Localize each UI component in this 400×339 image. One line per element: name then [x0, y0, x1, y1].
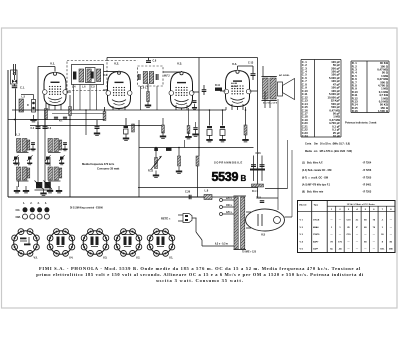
- wire junction dots: [14, 109, 247, 148]
- capacitor C12: [202, 89, 207, 92]
- tube socket V.4.: [47, 229, 75, 257]
- wire: [264, 91, 266, 108]
- svg-text:R.1 1: R.1 1: [252, 190, 258, 193]
- wire: [33, 95, 35, 100]
- tube socket V.5.: [12, 229, 40, 257]
- wire long mid: [12, 109, 226, 111]
- wire: [250, 90, 258, 92]
- wire: [37, 110, 39, 182]
- wire: [118, 72, 120, 74]
- svg-text:OC.: OC.: [16, 208, 21, 212]
- svg-text:M.F.2: M.F.2: [164, 76, 170, 78]
- capacitor C5b: [31, 142, 35, 145]
- wire: [37, 122, 39, 126]
- wire: [195, 122, 197, 127]
- wire V3 cathode leads: [176, 105, 187, 110]
- wire: [106, 58, 108, 61]
- ground: [153, 171, 159, 178]
- IF1 inner box2: [86, 68, 96, 83]
- wire: [49, 157, 51, 166]
- svg-text:V.4.: V.4.: [69, 257, 74, 260]
- tuning gang C14 C15: [35, 181, 53, 191]
- capacitor C10: [193, 100, 197, 103]
- svg-text:4.: 4.: [45, 202, 47, 205]
- wire: [14, 84, 16, 86]
- capacitor C2: [36, 126, 41, 129]
- wire: [147, 84, 149, 92]
- wire: [222, 110, 224, 126]
- wire: [18, 181, 20, 187]
- wire: [246, 227, 251, 229]
- svg-text:V.2.: V.2.: [114, 62, 119, 66]
- svg-text:3.: 3.: [38, 202, 40, 205]
- potentiometer R12: [151, 156, 162, 170]
- wire AVC bus: [107, 57, 258, 59]
- wire: [15, 89, 17, 137]
- svg-text:(A-5) MF 470 kHz tipo F.1: (A-5) MF 470 kHz tipo F.1: [302, 184, 331, 187]
- capacitor C9: [138, 74, 141, 80]
- wire: [138, 120, 140, 197]
- wire: [148, 58, 150, 61]
- capacitor C8: [146, 60, 151, 63]
- capacitor C5c: [63, 142, 67, 145]
- coil L7b: [149, 72, 153, 84]
- tube socket V.2.: [114, 229, 142, 257]
- svg-text:- R 7204: - R 7204: [362, 162, 372, 165]
- ground: [176, 167, 182, 174]
- ground: [59, 159, 64, 165]
- socket V3 pins: [89, 235, 100, 247]
- svg-text:B: B: [241, 174, 247, 183]
- electrolytic C18: [220, 126, 225, 136]
- wire: [188, 108, 190, 126]
- output transformer T2: [262, 77, 277, 101]
- capacitor C10: [156, 74, 159, 80]
- svg-text:R.16: R.16: [352, 109, 358, 113]
- svg-text:- R 7203: - R 7203: [362, 191, 372, 194]
- svg-text:75 W/E + 125: 75 W/E + 125: [242, 252, 257, 254]
- svg-text:C.5: C.5: [91, 86, 95, 89]
- capacitor C13: [251, 73, 256, 76]
- ground: [219, 135, 225, 142]
- shield dashed link: [107, 60, 138, 62]
- ground: [47, 186, 53, 193]
- ground: [242, 135, 248, 142]
- trimmer C2c: [45, 155, 51, 161]
- capacitor value table: [301, 60, 341, 139]
- coil block lower-right: [48, 167, 62, 181]
- svg-text:1TA70: 1TA70: [313, 233, 320, 236]
- resistor R9: [187, 126, 190, 134]
- wire: [49, 181, 51, 187]
- svg-text:1.500 Ω: 1.500 Ω: [378, 109, 389, 113]
- svg-text:V.5.: V.5.: [34, 257, 39, 260]
- ground: [206, 135, 212, 142]
- wire: [69, 95, 71, 197]
- note IF freq: [82, 162, 119, 171]
- svg-text:primo elettrolitico 185 volt e: primo elettrolitico 185 volt e 150 volt …: [36, 272, 364, 277]
- ground: [45, 159, 50, 165]
- ground: [27, 159, 32, 165]
- wire V1 cathode leads: [49, 104, 61, 110]
- wire: [269, 101, 271, 108]
- chassis box left edge wire: [7, 70, 9, 197]
- svg-text:Consumo 35 watt: Consumo 35 watt: [97, 167, 119, 171]
- rectifier tube V5: [246, 209, 285, 237]
- socket V1 pins: [155, 235, 166, 247]
- wire: [162, 118, 164, 126]
- svg-text:R.12: R.12: [148, 170, 154, 173]
- ground: [185, 132, 191, 139]
- svg-text:100.: 100.: [380, 249, 385, 251]
- svg-text:6BA6: 6BA6: [313, 226, 319, 229]
- coil block upper-right: [48, 139, 62, 153]
- wire: [245, 107, 247, 125]
- wire bus: [8, 119, 105, 121]
- capacitor C4b: [54, 117, 58, 120]
- wire mid bus2: [138, 187, 258, 189]
- svg-text:V.3.: V.3.: [177, 62, 182, 66]
- ground: [123, 134, 129, 141]
- wire plate V1: [66, 91, 71, 93]
- wire: [192, 217, 197, 219]
- svg-text:220 v.: 220 v.: [226, 198, 233, 200]
- trimmer C2d: [59, 155, 65, 161]
- resistor R3: [69, 107, 72, 116]
- wire: [125, 118, 127, 126]
- tube socket V.3.: [81, 229, 109, 257]
- svg-text:V.1.: V.1.: [50, 62, 55, 66]
- trimmer C2b: [27, 155, 33, 161]
- svg-text:6A 6B: 6A 6B: [231, 82, 238, 85]
- capacitor C6: [95, 126, 100, 129]
- ground: [14, 186, 20, 193]
- tube V4: [224, 70, 251, 106]
- svg-text:(6-7) » oscill. OC - OM: (6-7) » oscill. OC - OM: [302, 176, 328, 179]
- capacitor C15: [260, 200, 265, 203]
- svg-text:C-13: C-13: [248, 62, 254, 65]
- wire: [202, 245, 234, 247]
- ground: [30, 145, 35, 151]
- svg-text:OM.: OM.: [16, 215, 21, 219]
- resistor R16 box: [166, 148, 172, 151]
- wire: [262, 66, 264, 77]
- svg-text:Corta Om 16 a 52 m. (MH: Corta Om 16 a 52 m. (MHz 18,7 : 5,8): [305, 143, 350, 146]
- wire heater bus: [52, 113, 105, 115]
- ground: [13, 159, 18, 165]
- svg-text:6,3 v - 0,3 w: 6,3 v - 0,3 w: [215, 244, 228, 246]
- wire: [238, 65, 254, 67]
- IF1 inner box: [72, 65, 104, 85]
- resistor R2: [45, 109, 48, 120]
- svg-text:DI G.SM·King connisti - E50: DI G.SM·King connisti - E5006: [70, 207, 104, 210]
- svg-text:12 Vd.f.-C.Matt al P.C. Emis: 12 Vd.f.-C.Matt al P.C. Emiss.: [347, 203, 376, 206]
- wire: [252, 66, 254, 73]
- resistor R8: [162, 125, 165, 133]
- electrolytic C7: [124, 126, 129, 134]
- coil block upper-left: [17, 139, 30, 153]
- capacitor C3: [43, 126, 48, 129]
- shield box MF1 dashed: [67, 61, 107, 91]
- wire: [155, 148, 157, 158]
- svg-text:SOPRAMMOBILE: SOPRAMMOBILE: [214, 161, 243, 165]
- switch S1: [196, 218, 202, 246]
- note coils: [302, 162, 372, 194]
- wire: [45, 103, 47, 109]
- capacitor C26: [185, 191, 192, 200]
- socket V4 pins: [55, 235, 66, 247]
- wire: [212, 196, 234, 198]
- svg-text:5539: 5539: [212, 170, 239, 184]
- svg-text:RETE ≈: RETE ≈: [161, 217, 171, 221]
- ground: [56, 186, 62, 193]
- band buttons OC: [16, 207, 50, 212]
- coil L8: [204, 189, 212, 200]
- band buttons OM: [16, 214, 50, 219]
- wire: [44, 120, 46, 127]
- wire: [258, 197, 279, 199]
- wire IF2 drops: [141, 86, 158, 110]
- trimmer C2a: [13, 155, 19, 161]
- svg-text:C.26: C.26: [185, 191, 191, 194]
- primary tap 220V: [220, 198, 235, 202]
- pin text V4: [231, 82, 238, 88]
- capacitor C5: [91, 72, 94, 79]
- wire: [277, 99, 279, 210]
- tube socket V.1.: [147, 229, 175, 257]
- svg-text:Valvole: Valvole: [299, 204, 307, 206]
- coil L6: [87, 69, 91, 82]
- tube V2: [106, 71, 132, 108]
- wire IF1 to V2 cap: [104, 71, 120, 73]
- svg-text:6AF7: 6AF7: [313, 240, 319, 243]
- svg-text:- R 7205: - R 7205: [362, 176, 372, 179]
- svg-text:3*: 3*: [356, 227, 358, 229]
- svg-text:Media frequenza 470 kc/s: Media frequenza 470 kc/s: [82, 162, 115, 166]
- wire: [96, 120, 98, 126]
- svg-text:R.11: R.11: [215, 84, 221, 87]
- wire: [184, 140, 186, 148]
- coil L4: [79, 69, 84, 82]
- resistor value table: [351, 61, 389, 113]
- svg-text:C.8: C.8: [153, 60, 157, 63]
- coil block lower-left: [17, 167, 30, 181]
- capacitor C1: [12, 85, 18, 88]
- svg-text:V.4.: V.4.: [232, 62, 237, 66]
- wire grid-cap V1: [38, 67, 55, 89]
- svg-text:V.5: V.5: [261, 233, 266, 237]
- ground: [40, 189, 46, 196]
- wire IF1 drops: [74, 85, 97, 111]
- resistor R15: [244, 125, 247, 135]
- capacitor C4c: [63, 117, 67, 120]
- wire: [178, 148, 180, 157]
- svg-text:6A 6B: 6A 6B: [231, 85, 238, 88]
- ground: [192, 104, 197, 110]
- ground: [62, 145, 67, 151]
- wire: [252, 76, 254, 80]
- speaker LS: [278, 79, 295, 100]
- coil L7a: [143, 72, 147, 84]
- svg-text:AP. N.DEL: AP. N.DEL: [279, 74, 290, 77]
- wire V2 cathode leads: [113, 106, 125, 110]
- svg-text:(1) Bob. filtro A.F.: (1) Bob. filtro A.F.: [302, 162, 323, 165]
- wire: [291, 150, 293, 217]
- coil L6b: [97, 69, 101, 82]
- svg-text:FIMI S.A. - PHONOLA - Mod. 553: FIMI S.A. - PHONOLA - Mod. 5539 B. Onde …: [39, 266, 361, 271]
- ground: [160, 132, 166, 139]
- wire bus2: [30, 125, 163, 127]
- capacitor C11: [193, 127, 197, 130]
- svg-text:16 µF: 16 µF: [333, 134, 340, 138]
- wire: [285, 216, 293, 218]
- resistor R6: [132, 124, 135, 132]
- model number 5539B: [212, 170, 247, 184]
- wire: [37, 88, 39, 110]
- tube V1: [43, 72, 68, 105]
- resistor R1: [32, 100, 36, 113]
- wire: [203, 92, 205, 95]
- svg-text:L.8: L.8: [205, 189, 209, 193]
- svg-text:(8) Bob. filtro rete: (8) Bob. filtro rete: [302, 191, 324, 194]
- wire: [198, 92, 200, 156]
- wire: [246, 211, 251, 213]
- resistor R5: [103, 112, 106, 121]
- resistor R17: [252, 184, 264, 187]
- mains plug: [161, 214, 192, 223]
- svg-text:V.2.: V.2.: [136, 257, 141, 260]
- svg-text:147F: 147F: [313, 248, 319, 251]
- wire: [21, 94, 34, 96]
- wire: [225, 107, 227, 110]
- svg-text:V.1.: V.1.: [169, 257, 174, 260]
- svg-text:160 v.: 160 v.: [226, 205, 233, 207]
- primary tap 160V: [220, 205, 235, 209]
- wire: [257, 58, 259, 199]
- ground: [145, 101, 151, 108]
- label buttons: [23, 202, 47, 205]
- resistor R16b: [154, 148, 158, 151]
- svg-text:R.4: R.4: [103, 74, 107, 77]
- wire: [287, 140, 289, 189]
- wire: [18, 157, 20, 166]
- svg-text:C.1.: C.1.: [20, 85, 25, 89]
- svg-text:Media om 185 a 576 m. (kHz: Media om 185 a 576 m. (kHz 1620 : 520): [305, 150, 352, 153]
- resistor R13: [178, 156, 181, 166]
- ground: [192, 130, 198, 137]
- shield box MF2 dashed: [138, 66, 164, 86]
- wire: [209, 110, 211, 126]
- resistor R14: [196, 156, 199, 166]
- svg-text:OTm8: OTm8: [313, 220, 320, 222]
- wire V4 cathode leads: [232, 104, 243, 110]
- ground: [23, 186, 29, 193]
- coil L5: [19, 99, 24, 112]
- svg-text:V.3.: V.3.: [103, 257, 108, 260]
- wire: [139, 147, 254, 149]
- wire: [44, 110, 46, 182]
- primary tap 125V: [220, 212, 235, 216]
- filter caps C16: [250, 156, 265, 182]
- wire: [163, 71, 182, 73]
- wire: [104, 107, 106, 112]
- svg-text:- R 7206: - R 7206: [362, 169, 372, 172]
- wire: [103, 89, 108, 91]
- socket V2 pins: [122, 235, 133, 247]
- wire plate V3: [193, 58, 200, 93]
- chassis box bottom wire: [8, 196, 209, 198]
- wire: [237, 66, 239, 70]
- antenna A1: [11, 64, 18, 84]
- ground: [94, 129, 100, 136]
- svg-text:2.: 2.: [30, 202, 32, 205]
- wire: [197, 166, 199, 197]
- socket V5 pins: [20, 237, 31, 245]
- wire: [181, 71, 183, 72]
- valve data table: [298, 201, 396, 253]
- wire: [85, 110, 87, 135]
- svg-text:C.24: C.24: [302, 134, 308, 138]
- resistor R7: [147, 92, 150, 102]
- wire: [203, 85, 205, 89]
- svg-text:- R 5401: - R 5401: [362, 184, 372, 187]
- power transformer T1: [234, 196, 247, 250]
- svg-text:1.: 1.: [23, 202, 25, 205]
- wire: [265, 188, 288, 190]
- svg-text:uscita 3 watt. Consumo 35 watt: uscita 3 watt. Consumo 35 watt.: [156, 278, 243, 283]
- svg-text:Potenza indistorta: 3 watt: Potenza indistorta: 3 watt: [345, 121, 377, 125]
- svg-text:Tipo: Tipo: [314, 204, 319, 206]
- ground: [30, 115, 36, 122]
- svg-text:(2-4) Bob. canale OC - OM: (2-4) Bob. canale OC - OM: [302, 169, 331, 172]
- capacitor C4: [73, 72, 76, 80]
- svg-text:C.16: C.16: [256, 152, 262, 155]
- svg-text:125 v.: 125 v.: [226, 212, 233, 214]
- wire: [220, 90, 226, 92]
- electrolytic C17: [207, 126, 212, 136]
- tube V3: [169, 72, 194, 108]
- resistor R11: [215, 88, 222, 91]
- note bands: [305, 143, 352, 154]
